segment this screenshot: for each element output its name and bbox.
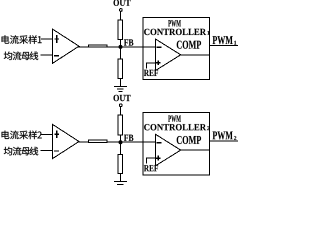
node FB junction dot xyxy=(119,140,123,144)
ground symbol xyxy=(114,86,127,91)
wire: REF source to comparator + xyxy=(146,158,155,164)
label REF xyxy=(144,165,158,171)
comparator (inside controller) xyxy=(156,39,181,71)
op-amp + input mark xyxy=(54,35,59,43)
label FB xyxy=(124,135,133,141)
wire: PWM1 output xyxy=(210,45,239,47)
op-amp + input mark xyxy=(54,131,59,139)
wire: OUT terminal to R1b xyxy=(120,12,122,20)
label: current-share bus (均流母线) xyxy=(4,51,38,60)
terminal circle OUT xyxy=(119,9,122,12)
comparator + input mark xyxy=(156,156,161,161)
converter channel 1 xyxy=(2,0,238,91)
label CONTROLLER1 xyxy=(144,29,206,35)
resistor R1c (lower divider) xyxy=(118,59,123,78)
resistor R1b (upper divider) xyxy=(118,20,123,40)
PWM controller box U10 xyxy=(143,17,210,79)
ground symbol xyxy=(114,182,127,187)
wire: R1b to FB node to R1c xyxy=(120,40,122,60)
label PWM1 xyxy=(213,36,233,44)
resistor R2a (series, op-amp to FB) xyxy=(89,140,107,142)
resistor R2c (lower divider) xyxy=(118,155,123,174)
wire: bus input to op-amp - input xyxy=(41,149,54,151)
wire: REF source to comparator + xyxy=(146,63,155,69)
wire: sample input to op-amp + input xyxy=(41,38,53,40)
label REF xyxy=(144,70,158,76)
op-amp U2 xyxy=(53,125,79,159)
label PWM2 xyxy=(213,131,233,139)
resistor R2b (upper divider) xyxy=(118,115,123,135)
label COMP xyxy=(177,136,201,144)
op-amp - input mark xyxy=(54,55,59,57)
comparator - input mark xyxy=(157,46,162,48)
PWM controller box U20 xyxy=(143,113,210,175)
wire: bus input to op-amp - input xyxy=(41,54,54,56)
wire: R2c to ground xyxy=(120,174,122,182)
label PWM (box title) xyxy=(168,115,181,121)
wire: resistor to FB node and controller xyxy=(107,141,156,143)
wire: op-amp output xyxy=(78,141,89,143)
wire: op-amp output xyxy=(78,46,89,48)
op-amp - input mark xyxy=(54,150,59,152)
label: current sample input 1 (电流采样1) xyxy=(2,35,42,44)
wire: PWM2 output xyxy=(210,140,239,142)
label COMP xyxy=(177,41,201,49)
wire: R2b to FB node to R2c xyxy=(120,135,122,155)
label OUT xyxy=(113,95,130,101)
wire: R1c to ground xyxy=(120,78,122,86)
comparator (inside controller) xyxy=(156,134,181,166)
comparator - input mark xyxy=(157,142,162,144)
label OUT xyxy=(113,0,130,6)
wire: comparator output xyxy=(181,149,210,151)
label: current sample input 2 (电流采样2) xyxy=(2,131,42,140)
terminal circle OUT xyxy=(119,104,122,107)
comparator + input mark xyxy=(156,60,161,65)
label PWM (box title) xyxy=(168,20,181,26)
wire: resistor to FB node and controller xyxy=(107,46,156,48)
wire: OUT terminal to R2b xyxy=(120,107,122,115)
node FB junction dot xyxy=(119,45,123,49)
wire: comparator output xyxy=(181,54,210,56)
converter channel 2 xyxy=(2,95,238,187)
wire: sample input to op-amp + input xyxy=(41,133,53,135)
op-amp U1 xyxy=(53,29,79,63)
label: current-share bus (均流母线) xyxy=(4,147,38,156)
label FB xyxy=(124,39,133,45)
label CONTROLLER2 xyxy=(144,124,206,130)
resistor R1a (series, op-amp to FB) xyxy=(89,45,107,47)
